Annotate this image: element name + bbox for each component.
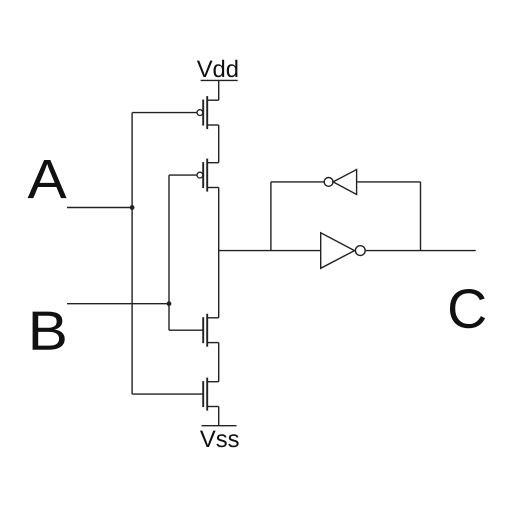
wire Vdd to Q1 drain bbox=[218, 80, 220, 100]
wire B to Q2 gate bbox=[169, 174, 197, 176]
wire Q3 source to Q4 drain bbox=[218, 343, 220, 382]
wire output node to Q3 drain bbox=[218, 251, 220, 318]
svg-text:A: A bbox=[27, 148, 66, 210]
svg-text:Vdd: Vdd bbox=[197, 56, 239, 83]
wire to inverter U2 input bbox=[357, 181, 421, 183]
wire input B bbox=[67, 303, 169, 305]
wire output node to inverter U1 input bbox=[219, 250, 321, 252]
transistor Q2 (PMOS, gate B) bbox=[197, 159, 219, 192]
wire U2 output down to output node bbox=[270, 182, 272, 251]
wire A to Q4 gate bbox=[132, 393, 203, 395]
wire feedback tap up bbox=[420, 182, 422, 251]
transistor Q4 (NMOS, gate A) bbox=[203, 378, 219, 411]
power rail Vdd bbox=[201, 79, 238, 81]
transistor Q1 (PMOS, gate A) bbox=[197, 96, 219, 129]
junction node B bbox=[167, 301, 172, 306]
inverter U1 (forward, output C) bbox=[321, 233, 365, 268]
junction node A bbox=[130, 205, 135, 210]
wire U1 output to C bbox=[365, 250, 476, 252]
wire input A bbox=[67, 207, 132, 209]
inverter U2 (feedback, pointing left) bbox=[324, 170, 356, 195]
svg-text:B: B bbox=[28, 300, 68, 362]
wire Q1 source to Q2 drain bbox=[218, 125, 220, 163]
wire A vertical bus bbox=[131, 113, 133, 395]
wire B to Q3 gate bbox=[169, 329, 203, 331]
wire A to Q1 gate bbox=[132, 112, 197, 114]
wire Q4 source to Vss bbox=[218, 407, 220, 426]
wire Q2 source to output node bbox=[218, 188, 220, 251]
label Vdd bbox=[197, 56, 239, 83]
svg-text:C: C bbox=[447, 278, 487, 340]
wire B vertical bus bbox=[168, 175, 170, 330]
wire U2 output left bbox=[271, 181, 324, 183]
transistor Q3 (NMOS, gate B) bbox=[203, 314, 219, 347]
svg-text:Vss: Vss bbox=[200, 426, 240, 453]
power rail Vss bbox=[202, 425, 237, 427]
label Vss bbox=[200, 426, 240, 453]
